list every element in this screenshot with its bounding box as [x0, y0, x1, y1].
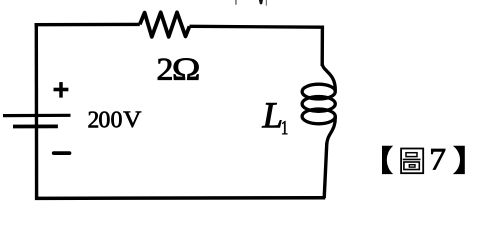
battery positive plate (long): [3, 114, 71, 117]
stray mark (cut-off text above figure) 2: [259, 0, 263, 4]
label: 2 ohm resistor value: [158, 58, 199, 79]
wire: top-left horizontal: [35, 23, 140, 27]
resistor R (2 ohm) zigzag: [140, 12, 190, 37]
stray mark (cut-off text above figure) 1: [235, 0, 236, 5]
polarity plus sign: [54, 82, 69, 98]
inductor L1 loop 2: [302, 97, 335, 112]
caption left lenticular bracket: [382, 146, 393, 174]
battery negative plate (short): [13, 125, 58, 129]
polarity minus sign: [54, 151, 70, 155]
wire: top-right horizontal: [190, 25, 323, 29]
wire: left vertical: [35, 23, 39, 198]
inductor L1 top hook: [322, 64, 335, 91]
label: L1 inductor designator: [262, 103, 287, 134]
wire: right vertical upper (to inductor): [321, 26, 325, 67]
caption numeral 7: [431, 149, 445, 169]
inductor L1 loop 1: [302, 84, 335, 99]
caption character TU (figure): [401, 149, 423, 174]
inductor L1 loop 3: [302, 109, 335, 124]
label: 200V source value: [89, 112, 142, 128]
wire: right vertical lower (from inductor): [324, 143, 327, 198]
caption right lenticular bracket: [453, 146, 465, 174]
wire: bottom horizontal: [35, 196, 325, 200]
inductor L1 bottom tail: [327, 117, 336, 145]
stray mark (cut-off text above figure) 3: [266, 0, 267, 6]
